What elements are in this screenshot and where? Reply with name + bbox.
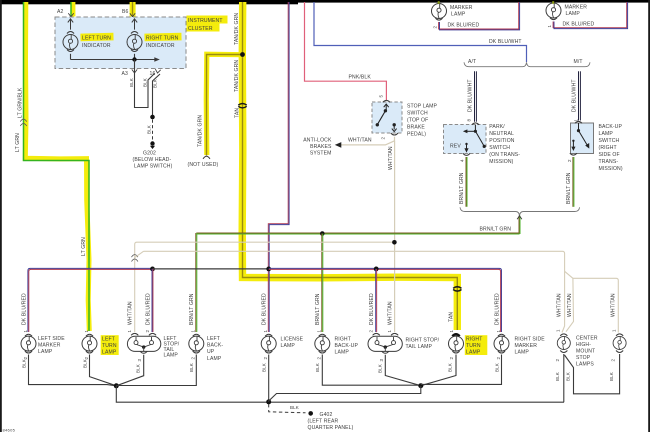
node junction in cluster (132, 57, 136, 61)
connector A2 (68, 13, 73, 17)
lamp CENTER HIGH-MOUNT STOP LAMP B (613, 334, 626, 353)
wire DK BLU/RED drop to left stop/tail pin 2 (151, 269, 154, 332)
svg-text:BLK: BLK (447, 363, 452, 372)
svg-text:CENTER: CENTER (576, 336, 598, 342)
wire DK BLU/RED tail bus right section (269, 268, 502, 332)
svg-text:1: 1 (611, 329, 616, 332)
svg-text:TAN/DK GRN: TAN/DK GRN (198, 115, 204, 147)
wire WHT/TAN bus lower (tan 2) to center high-mount lamps (144, 251, 565, 332)
wire DK BLU/RED from marker lamp 2 (439, 2, 520, 30)
svg-text:WHT/TAN: WHT/TAN (556, 293, 562, 317)
label LEFT TURN LAMP highlighted (101, 335, 119, 355)
lamp RIGHT BACK-UP LAMP (315, 334, 330, 353)
connector in-line on TAN wire (right drop) (453, 287, 461, 291)
svg-text:2: 2 (263, 357, 268, 360)
node ground junction right (418, 383, 423, 388)
svg-text:LAMP SWITCH): LAMP SWITCH) (134, 164, 173, 170)
svg-text:BLK: BLK (82, 359, 87, 368)
svg-text:(ON TRANS-: (ON TRANS- (489, 152, 520, 158)
svg-text:2: 2 (145, 330, 150, 333)
svg-text:TRANS-: TRANS- (599, 159, 619, 165)
svg-text:LEFT SIDE: LEFT SIDE (38, 336, 65, 342)
svg-text:PNK/BLK: PNK/BLK (349, 74, 372, 80)
node junction WHT/TAN at stop lamp feed (392, 240, 397, 245)
arrow to anti-lock brakes system (335, 142, 342, 148)
wire DK BLU/WHT M/T branch (579, 71, 581, 120)
svg-text:MOUNT: MOUNT (576, 349, 595, 355)
svg-text:BRN/LT GRN: BRN/LT GRN (189, 293, 195, 325)
wire BLK center lamp A to ground bus (563, 354, 565, 402)
wire BLK right stop/tail to right ground junction (385, 355, 421, 386)
wire WHT/TAN diagonal to lower bus (135, 251, 144, 257)
wire BRN/LT GRN bus to back-up lamps (196, 233, 519, 234)
svg-text:QUARTER PANEL): QUARTER PANEL) (308, 425, 354, 431)
lamp LICENSE LAMP (261, 334, 276, 353)
svg-text:CLUSTER: CLUSTER (188, 26, 213, 32)
svg-text:2: 2 (611, 359, 616, 362)
svg-text:LEFT: LEFT (207, 336, 220, 342)
svg-text:DK BLU/RED: DK BLU/RED (146, 293, 152, 325)
svg-text:DK BLU/WHT: DK BLU/WHT (572, 79, 578, 112)
connector not used (203, 156, 210, 159)
wire BLK dashed to G202 (152, 120, 154, 141)
svg-text:BRN/LT GRN: BRN/LT GRN (459, 172, 465, 204)
svg-text:M/T: M/T (574, 59, 583, 65)
wire WHT/TAN from switch (341, 137, 395, 145)
svg-text:LAMP: LAMP (515, 350, 530, 356)
brace joining transmission switch outputs (460, 207, 580, 215)
wire BLK right junction down to center junction (269, 386, 421, 402)
svg-text:TAN/DK GRN: TAN/DK GRN (234, 13, 240, 45)
wire WHT/TAN down to tail lamps (394, 141, 396, 332)
svg-text:REV: REV (450, 144, 461, 150)
svg-text:BLK: BLK (129, 78, 134, 87)
svg-text:MISSION): MISSION) (599, 166, 623, 172)
svg-text:LAMP: LAMP (207, 356, 222, 362)
connector A3 (132, 69, 137, 73)
connector pin 16 (155, 69, 161, 73)
svg-text:DK BLU/RED: DK BLU/RED (369, 293, 375, 325)
svg-text:2: 2 (555, 359, 560, 362)
wire BLK bus segment (153, 268, 269, 270)
arrow up at brace junction (517, 216, 522, 219)
node ground junction left (114, 383, 119, 388)
wire WHT/TAN branch to lamp B (573, 278, 618, 332)
svg-text:SWITCH: SWITCH (407, 111, 428, 117)
svg-text:SYSTEM: SYSTEM (310, 150, 332, 156)
node junction tail bus at right stop/tail (374, 267, 379, 272)
svg-text:A/T: A/T (468, 59, 476, 65)
svg-text:SIDE OF: SIDE OF (599, 152, 620, 158)
svg-text:STOP: STOP (576, 355, 591, 361)
brace A/T M/T split (464, 62, 590, 66)
ground G402 (308, 411, 354, 431)
wire DK BLU/RED from marker lamp 1 (553, 2, 628, 29)
svg-text:2: 2 (432, 26, 437, 29)
svg-text:8: 8 (466, 119, 471, 122)
svg-text:WHT/TAN: WHT/TAN (388, 301, 394, 325)
wire BLK left back-up to ground bus (116, 355, 196, 386)
svg-text:HIGH-: HIGH- (576, 342, 591, 348)
svg-text:1: 1 (23, 330, 28, 333)
svg-text:2: 2 (369, 330, 374, 333)
label RIGHT TURN LAMP highlighted (465, 335, 488, 355)
wire BRN/LT GRN drop to left back-up lamp (196, 233, 197, 332)
wire BLK center lamp B loop (565, 354, 620, 394)
lamp MARKER LAMP (left of pair) (432, 4, 447, 21)
svg-text:1: 1 (127, 330, 132, 333)
svg-text:BRN/LT GRN: BRN/LT GRN (566, 172, 572, 204)
svg-text:TAIL LAMP: TAIL LAMP (406, 344, 433, 350)
wire DK BLU/WHT A/T branch (475, 71, 477, 121)
svg-text:1: 1 (547, 25, 552, 28)
label LEFT TURN INDICATOR highlighted (80, 33, 113, 49)
wire TAN/DK GRN branch to not-used connector (206, 54, 242, 155)
wire BLK left turn lamp to ground junction (90, 355, 117, 386)
svg-text:BACK-: BACK- (207, 343, 223, 349)
svg-text:(LEFT REAR: (LEFT REAR (308, 418, 339, 424)
svg-text:A3: A3 (122, 71, 129, 77)
svg-text:BRN/LT GRN: BRN/LT GRN (480, 226, 512, 232)
svg-text:BACK-UP: BACK-UP (335, 343, 359, 349)
connector in-line on TAN wire (238, 104, 246, 108)
svg-text:1: 1 (387, 330, 392, 333)
svg-text:5: 5 (379, 95, 384, 98)
svg-text:RIGHT TURN: RIGHT TURN (146, 36, 179, 42)
svg-text:1: 1 (496, 330, 501, 333)
svg-text:BLK: BLK (143, 78, 148, 87)
svg-text:3: 3 (137, 359, 142, 362)
svg-text:LAMP: LAMP (566, 11, 581, 17)
svg-text:DK BLU/RED: DK BLU/RED (494, 293, 500, 325)
lamp CENTER HIGH-MOUNT STOP LAMP A (557, 334, 570, 353)
label PARK/NEUTRAL POSITION SWITCH (489, 124, 520, 165)
svg-text:POSITION: POSITION (489, 138, 515, 144)
svg-text:STOP LAMP: STOP LAMP (407, 104, 438, 110)
svg-text:BLK: BLK (189, 363, 194, 372)
svg-text:LAMP: LAMP (335, 350, 350, 356)
svg-text:BRAKES: BRAKES (310, 144, 332, 150)
svg-text:BLK: BLK (494, 363, 499, 372)
svg-text:WHT/TAN: WHT/TAN (567, 293, 573, 317)
wire WHT/TAN branch to lamp A pin (566, 278, 574, 331)
svg-text:1: 1 (556, 329, 561, 332)
svg-text:WHT/TAN: WHT/TAN (388, 146, 394, 170)
svg-text:16: 16 (150, 71, 156, 77)
svg-text:BLK: BLK (136, 364, 141, 373)
wire BLK left stop/tail to ground junction (116, 355, 143, 386)
wire BLK pin 16 to ground (153, 74, 161, 116)
svg-text:84605: 84605 (3, 428, 16, 432)
svg-text:BRAKE: BRAKE (407, 125, 425, 131)
svg-text:SWITCH: SWITCH (489, 145, 510, 151)
svg-text:BLK: BLK (377, 364, 382, 373)
node junction tail bus at left stop/tail (150, 267, 155, 272)
svg-text:LAMP: LAMP (102, 350, 117, 356)
svg-text:DK BLU/WHT: DK BLU/WHT (468, 79, 474, 112)
node splice (150, 115, 155, 120)
svg-text:1: 1 (263, 330, 268, 333)
svg-text:BLK: BLK (153, 79, 158, 88)
svg-text:PEDAL): PEDAL) (407, 132, 426, 138)
svg-text:DK BLU/RED: DK BLU/RED (448, 23, 480, 29)
svg-text:MARKER: MARKER (515, 343, 538, 349)
node junction on BRN/LT GRN bus (320, 231, 325, 236)
svg-text:2: 2 (449, 357, 454, 360)
wire PNK/BLK to stop lamp switch (305, 2, 387, 100)
svg-text:LEFT TURN: LEFT TURN (82, 36, 111, 42)
svg-text:1: 1 (317, 330, 322, 333)
svg-text:4: 4 (460, 159, 465, 162)
splice on LT GRN wire (20, 119, 26, 126)
svg-text:LAMP: LAMP (281, 343, 296, 349)
svg-text:(NOT USED): (NOT USED) (188, 162, 219, 168)
wire BLK license lamp to ground junction (268, 355, 270, 402)
svg-text:2: 2 (191, 357, 196, 360)
wire BRN/LT GRN from park/neutral switch (466, 157, 467, 207)
connector B6 (130, 13, 135, 17)
svg-text:BLK: BLK (290, 405, 299, 410)
label RIGHT TURN INDICATOR highlighted (144, 33, 181, 49)
lamp LEFT BACK-UP LAMP (189, 334, 204, 353)
svg-text:TAN: TAN (235, 108, 241, 118)
wire DK BLU/WHT feed to transmission switches (314, 2, 527, 62)
lamp LEFT SIDE MARKER LAMP (21, 334, 36, 353)
svg-text:WHT/TAN: WHT/TAN (348, 137, 372, 143)
svg-text:LT GRN: LT GRN (15, 133, 21, 152)
svg-text:TURN: TURN (102, 343, 117, 349)
svg-text:(BELOW HEAD-: (BELOW HEAD- (133, 157, 172, 163)
lamp LEFT TURN LAMP (82, 334, 97, 353)
node junction tail bus at license lamp (266, 267, 271, 272)
svg-text:(RIGHT: (RIGHT (599, 145, 617, 151)
svg-text:2: 2 (496, 357, 501, 360)
wire A2 LT GRN highlighted (71, 2, 76, 17)
svg-text:LT GRN: LT GRN (81, 237, 87, 256)
node junction on TAN/DK GRN (240, 52, 245, 57)
lamp LEFT STOP/TAIL LAMP (127, 333, 160, 353)
svg-text:RIGHT STOP/: RIGHT STOP/ (406, 338, 440, 344)
wire BLK right turn to right ground junction (421, 355, 456, 386)
svg-text:BLK: BLK (565, 372, 570, 381)
svg-text:LAMP: LAMP (38, 349, 53, 355)
wire WHT/TAN branch diagonal (565, 271, 573, 278)
wire BLK right side marker to right ground junction (421, 355, 502, 385)
wire BLK right back-up to right ground junction (322, 355, 421, 386)
wire DK BLU/RED drop to right stop/tail pin 2 (375, 269, 378, 332)
svg-text:BLK: BLK (262, 363, 267, 372)
svg-text:A2: A2 (57, 9, 64, 15)
svg-text:DK BLU/RED: DK BLU/RED (21, 293, 27, 325)
splice crossover marks on WHT/TAN (132, 255, 138, 262)
lamp LEFT TURN INDICATOR (63, 19, 78, 60)
svg-text:MARKER: MARKER (450, 5, 473, 11)
svg-text:TAN/DK GRN: TAN/DK GRN (234, 60, 240, 92)
wire BRN/LT GRN from back-up lamp switch (573, 157, 574, 207)
wire BRN/LT GRN combined drop (519, 216, 520, 234)
svg-text:3: 3 (379, 359, 384, 362)
svg-text:UP: UP (207, 349, 215, 355)
wire B6 TAN highlighted (130, 2, 136, 17)
wire TAN/DK GRN highlighted (right turn feed main) (242, 2, 457, 330)
wire BLK ground bus lower (116, 386, 564, 402)
ground G202 (133, 141, 173, 169)
wire BLK dashed to G402 (269, 404, 306, 413)
svg-text:2: 2 (23, 357, 28, 360)
switch PARK/NEUTRAL POSITION SWITCH (444, 123, 487, 156)
lamp RIGHT TURN INDICATOR (127, 19, 142, 60)
svg-text:BLK: BLK (21, 359, 26, 368)
wire LT GRN highlighted (left turn feed, left edge) (24, 2, 90, 331)
svg-text:LAMP: LAMP (599, 131, 614, 137)
svg-text:MISSION): MISSION) (489, 159, 513, 165)
svg-text:1: 1 (191, 330, 196, 333)
svg-text:1: 1 (84, 330, 89, 333)
wire BLK from A3 (135, 60, 155, 108)
svg-text:TAN: TAN (448, 312, 454, 322)
svg-text:B6: B6 (122, 9, 129, 15)
svg-text:2: 2 (567, 159, 572, 162)
svg-text:INDICATOR: INDICATOR (82, 43, 111, 49)
label INSTRUMENT CLUSTER highlighted (187, 16, 228, 33)
label ANTI-LOCK BRAKES SYSTEM (303, 137, 332, 156)
svg-text:NEUTRAL: NEUTRAL (489, 131, 514, 137)
svg-text:DK BLU/RED: DK BLU/RED (563, 22, 595, 28)
svg-text:LAMP: LAMP (466, 350, 481, 356)
svg-text:RIGHT SIDE: RIGHT SIDE (515, 337, 546, 343)
switch STOP LAMP SWITCH (372, 100, 402, 135)
lamp MARKER LAMP (right of pair) (546, 3, 561, 20)
svg-text:G202: G202 (143, 151, 156, 157)
svg-text:INSTRUMENT: INSTRUMENT (188, 18, 223, 24)
svg-text:BACK-UP: BACK-UP (599, 124, 623, 130)
lamp RIGHT SIDE MARKER LAMP (494, 334, 509, 353)
wire WHT/TAN bus upper (tan 1) (135, 242, 395, 332)
svg-text:(TOP OF: (TOP OF (407, 118, 428, 124)
lamp RIGHT STOP/TAIL LAMP (368, 333, 402, 353)
instrument cluster box (55, 17, 186, 69)
svg-text:BLK: BLK (609, 372, 614, 381)
node ground junction center (266, 399, 271, 404)
switch BACK-UP LAMP SWITCH (570, 121, 594, 155)
svg-text:BLK: BLK (147, 125, 152, 134)
svg-text:1: 1 (449, 330, 454, 333)
wire DK BLU/RED tail bus left section (28, 268, 153, 332)
wire BLK left side marker to ground junction (29, 355, 117, 386)
svg-text:BLK: BLK (555, 372, 560, 381)
svg-text:2: 2 (380, 137, 385, 140)
svg-text:BRN/LT GRN: BRN/LT GRN (315, 293, 321, 325)
svg-text:LT GRN/BLK: LT GRN/BLK (18, 87, 24, 118)
svg-text:WHT/TAN: WHT/TAN (610, 293, 616, 317)
svg-text:ANTI-LOCK: ANTI-LOCK (303, 137, 332, 143)
svg-text:RIGHT: RIGHT (466, 337, 482, 343)
svg-text:LAMPS: LAMPS (576, 362, 594, 368)
svg-text:MARKER: MARKER (565, 5, 588, 11)
svg-text:2: 2 (317, 357, 322, 360)
svg-text:LAMP: LAMP (164, 353, 179, 359)
lamp RIGHT TURN LAMP (449, 334, 464, 353)
svg-text:2: 2 (84, 357, 89, 360)
svg-text:MARKER: MARKER (38, 343, 61, 349)
svg-text:SWITCH: SWITCH (599, 138, 620, 144)
svg-text:WHT/TAN: WHT/TAN (128, 301, 134, 325)
svg-text:LAMP: LAMP (451, 11, 466, 17)
svg-text:INDICATOR: INDICATOR (146, 43, 175, 49)
svg-text:LICENSE: LICENSE (281, 337, 304, 343)
svg-text:BLK: BLK (315, 363, 320, 372)
wire BRN/LT GRN drop to right back-up lamp (322, 234, 323, 333)
svg-text:RIGHT: RIGHT (335, 337, 351, 343)
wire cluster internal ground bus with arrow (71, 57, 160, 62)
svg-text:PARK/: PARK/ (489, 124, 505, 130)
label STOP LAMP SWITCH (407, 104, 438, 138)
label BACK-UP LAMP SWITCH (599, 124, 623, 172)
wire DK BLU/RED main feed (from top to tail lamp bus) (268, 2, 289, 332)
svg-text:DK BLU/RED: DK BLU/RED (262, 293, 268, 325)
svg-text:DK BLU/WHT: DK BLU/WHT (489, 39, 522, 45)
svg-text:G402: G402 (320, 412, 333, 418)
svg-text:LEFT: LEFT (102, 337, 115, 343)
top page-edge bar (0, 0, 650, 3)
svg-text:TURN: TURN (466, 343, 481, 349)
